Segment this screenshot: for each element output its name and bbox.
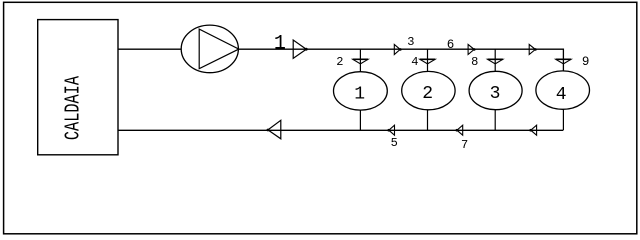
svg-text:CALDAIA: CALDAIA <box>61 76 85 140</box>
wire return radiator 2 <box>427 110 429 130</box>
svg-text:7: 7 <box>461 138 468 152</box>
wire return radiator 4 <box>562 109 564 130</box>
arrow 1 big supply <box>293 40 306 58</box>
pump P1 circle <box>181 25 238 73</box>
svg-text:1: 1 <box>354 85 365 105</box>
svg-text:4: 4 <box>411 55 418 69</box>
wire branch supply radiator 1 <box>359 49 361 72</box>
wire return radiator 3 <box>494 110 496 130</box>
valve 9 <box>556 59 571 64</box>
arrow 7 small return <box>457 125 463 135</box>
arrow small return right <box>531 125 537 135</box>
svg-text:2: 2 <box>336 55 343 69</box>
wire branch supply radiator 3 <box>494 49 496 72</box>
wire branch supply radiator 2 <box>427 49 429 72</box>
svg-text:6: 6 <box>447 38 455 52</box>
arrow 6 small supply <box>468 44 474 54</box>
svg-text:2: 2 <box>422 84 433 104</box>
svg-text:1: 1 <box>274 33 286 56</box>
wire supply main top pipe <box>239 49 564 72</box>
arrow small supply right <box>529 44 535 54</box>
wire return main bottom pipe <box>118 129 563 131</box>
radiator 3 <box>469 71 522 109</box>
arrow 3 small supply <box>394 44 400 54</box>
valve 8 <box>488 59 503 64</box>
radiator 1 <box>334 72 388 110</box>
valve 2 <box>353 59 368 64</box>
svg-text:9: 9 <box>582 55 590 69</box>
arrow 5 small return <box>389 125 395 135</box>
radiator 2 <box>402 71 455 109</box>
svg-text:3: 3 <box>407 35 414 49</box>
wire supply boiler to pump <box>118 48 182 50</box>
boiler box CALDAIA <box>38 20 118 155</box>
arrow big return <box>268 120 281 139</box>
svg-text:5: 5 <box>391 136 398 150</box>
radiator 4 <box>536 71 590 109</box>
svg-text:8: 8 <box>471 55 478 69</box>
valve 4 <box>420 59 435 64</box>
pump P1 triangle <box>199 29 239 69</box>
wire return radiator 1 <box>359 110 361 130</box>
svg-text:4: 4 <box>556 85 567 105</box>
svg-text:3: 3 <box>490 84 501 104</box>
